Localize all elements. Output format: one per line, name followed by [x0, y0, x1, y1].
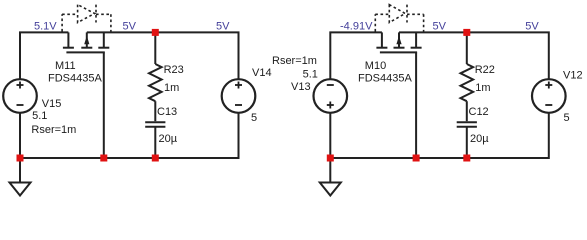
- transistor M10 body arrow: [396, 36, 401, 44]
- svg-text:V15: V15: [42, 98, 62, 110]
- svg-text:M10: M10: [365, 60, 386, 72]
- svg-text:5V: 5V: [216, 21, 230, 33]
- svg-text:1m: 1m: [475, 82, 490, 94]
- V13 plus sign: [327, 102, 334, 109]
- wire C12 to bottom rail: [466, 127, 468, 158]
- wire R23 branch top: [154, 32, 156, 64]
- svg-text:5.1: 5.1: [303, 69, 318, 81]
- voltage source V15: [3, 79, 37, 113]
- wire R22 branch top: [466, 32, 468, 64]
- svg-text:20µ: 20µ: [470, 133, 489, 145]
- svg-text:Rser=1m: Rser=1m: [31, 124, 76, 136]
- transistor M11 body (pmos FDS4435A): [63, 32, 109, 52]
- wire top rail right segment (5V net, left circuit): [87, 32, 239, 79]
- V14 minus sign: [235, 104, 242, 106]
- transistor M11 body arrow: [84, 36, 89, 44]
- svg-text:V14: V14: [252, 67, 272, 79]
- wire bottom rail (left circuit ground net): [20, 113, 239, 158]
- ground (right circuit): [320, 158, 341, 196]
- junction node (right circuit, V13 bottom): [327, 155, 334, 162]
- wire C13 to bottom rail: [154, 127, 156, 158]
- V14 plus sign: [235, 82, 242, 89]
- V12 plus sign: [545, 82, 552, 89]
- svg-text:C12: C12: [469, 106, 489, 118]
- wire R23 to C13: [154, 101, 156, 121]
- junction node (right circuit, C12 bottom): [463, 155, 470, 162]
- svg-text:5V: 5V: [525, 21, 539, 33]
- svg-text:5.1: 5.1: [32, 110, 47, 122]
- ground (left circuit): [10, 158, 31, 196]
- svg-text:-4.91V: -4.91V: [340, 21, 373, 33]
- svg-text:5.1V: 5.1V: [34, 21, 57, 33]
- body diode of M11 (dashed): [62, 5, 111, 32]
- junction node (right circuit, gate bottom): [413, 155, 420, 162]
- junction node (right circuit, R22 top): [463, 29, 470, 36]
- svg-text:20µ: 20µ: [159, 133, 178, 145]
- svg-text:FDS4435A: FDS4435A: [358, 73, 412, 85]
- wire top rail right segment (5V net, right circuit): [399, 32, 549, 79]
- svg-text:FDS4435A: FDS4435A: [48, 73, 102, 85]
- junction node (left circuit, gate bottom): [100, 155, 107, 162]
- svg-text:5V: 5V: [433, 21, 447, 33]
- wire bottom rail (right circuit ground net): [330, 113, 549, 158]
- voltage source V14: [222, 79, 256, 113]
- V13 minus sign: [327, 84, 334, 86]
- wire R22 to C12: [466, 101, 468, 121]
- svg-text:5: 5: [251, 112, 257, 124]
- svg-text:R22: R22: [475, 64, 495, 76]
- wire top rail left segment (5.1V net, left circuit): [20, 32, 68, 79]
- wire M10 gate to bottom rail: [415, 52, 417, 158]
- svg-text:R23: R23: [164, 64, 184, 76]
- svg-text:C13: C13: [157, 106, 177, 118]
- wire top rail left segment (-4.91V net, right circuit): [330, 32, 382, 79]
- resistor R22: [461, 64, 474, 101]
- voltage source V12: [532, 79, 566, 113]
- junction node (left circuit, R23 top): [152, 29, 159, 36]
- svg-text:1m: 1m: [164, 82, 179, 94]
- junction node (left circuit, C13 bottom): [152, 155, 159, 162]
- capacitor C13: [145, 122, 165, 127]
- svg-text:5: 5: [564, 112, 570, 124]
- wire M11 gate to bottom rail: [103, 52, 105, 158]
- svg-text:V13: V13: [291, 81, 311, 93]
- V15 plus sign: [17, 82, 24, 89]
- voltage source V13: [314, 79, 348, 113]
- V15 minus sign: [17, 104, 24, 106]
- svg-text:5V: 5V: [123, 21, 137, 33]
- resistor R23: [149, 64, 162, 101]
- junction node (left circuit, V15 bottom): [17, 155, 24, 162]
- svg-text:V12: V12: [563, 69, 583, 81]
- body diode of M10 (dashed): [375, 5, 423, 32]
- V12 minus sign: [545, 104, 552, 106]
- svg-text:M11: M11: [55, 60, 76, 72]
- transistor M10 body (pmos FDS4435A): [376, 32, 421, 52]
- capacitor C12: [457, 122, 477, 127]
- svg-text:Rser=1m: Rser=1m: [272, 55, 317, 67]
